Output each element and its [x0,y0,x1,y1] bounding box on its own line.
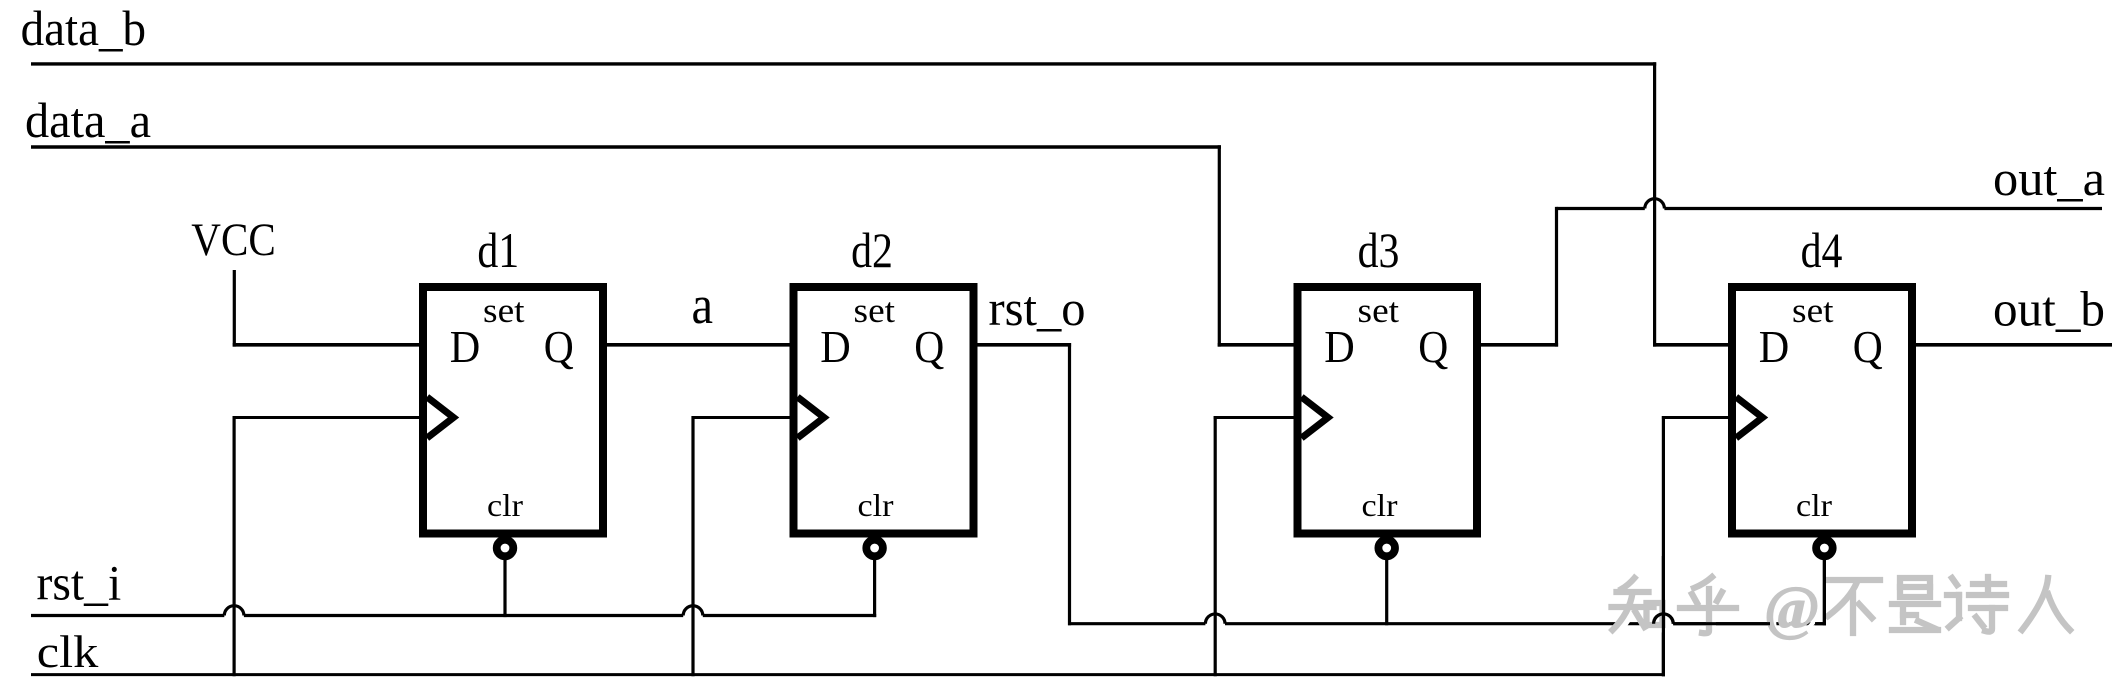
wire VCC to d1 D input [233,343,421,347]
wire d3 clr vertical [1385,556,1388,625]
wire d3 Q to out_a corner [1479,343,1558,347]
wire out_a horizontal (hop over data_b drop) [1557,207,1645,210]
wire rst_o vertical descent [1068,343,1071,625]
svg-text:clr: clr [1796,487,1832,523]
wire VCC vertical [233,270,236,347]
wire a : d1 Q to d2 D [605,343,792,347]
wire rst_o lower horizontal (hops over d3,d4 clock feeds) [1068,622,1205,625]
wire d1 clock feed vertical [233,416,236,676]
clock triangle d3 [1302,397,1329,438]
svg-text:d3: d3 [1358,222,1400,278]
clr bubble d2 [866,540,883,557]
flip-flop d4 [1732,287,1912,534]
svg-text:clr: clr [487,487,523,523]
wire rst_o segment right of hop (over watermark) [1673,622,1770,625]
wire d2 Q output [976,343,1072,347]
svg-text:Q: Q [544,321,574,372]
flip-flop d2 [794,287,974,534]
svg-text:out_b: out_b [1993,281,2105,337]
svg-text:Q: Q [914,321,944,372]
svg-text:clr: clr [1362,487,1398,523]
wire rst_i horizontal (hops over d1,d2 clock feeds) [31,614,224,617]
svg-text:D: D [1324,321,1355,372]
wire data_a to d3 D input [1218,343,1296,347]
wire data_b to d4 D input [1653,343,1730,347]
svg-text:D: D [450,321,481,372]
flip-flop d1 [423,287,603,534]
wire out_a vertical from d3 Q [1555,207,1558,347]
svg-text:data_b: data_b [21,0,146,56]
wire d1 clr vertical [503,556,506,617]
clock triangle d4 [1736,397,1763,438]
wire d3 clock input horizontal [1214,416,1303,419]
svg-text:rst_i: rst_i [37,555,122,611]
wire data_b vertical drop to d4 D [1653,62,1656,346]
svg-text:clr: clr [858,487,894,523]
svg-text:a: a [692,275,714,335]
svg-text:Q: Q [1853,321,1883,372]
watermark zhihu [1612,575,2074,645]
svg-text:out_a: out_a [1993,150,2105,206]
svg-text:VCC: VCC [191,214,275,266]
clr bubble d1 [497,540,514,557]
wire rst_o hop at d4 clock feed (over watermark) [1654,614,1674,624]
wire d1 clock input horizontal [233,416,428,419]
svg-text:clk: clk [37,626,99,677]
clock triangle d1 [427,397,454,438]
svg-text:d4: d4 [1801,222,1843,278]
wire data_b horizontal [31,62,1656,65]
wire clk bus horizontal [31,673,1665,676]
svg-text:set: set [1358,291,1400,330]
wire d3 clock feed vertical [1214,416,1217,676]
svg-text:rst_o: rst_o [989,280,1086,336]
wire d4 clock feed vertical (over watermark) [1662,556,1665,676]
wire d4 Q output to out_b [1914,343,2112,347]
svg-text:set: set [1792,291,1834,330]
clr bubble d3 [1378,540,1395,557]
wire rst_o end segment (over watermark) [1815,622,1826,625]
svg-text:d2: d2 [851,222,893,278]
svg-text:set: set [483,291,525,330]
wire d2 clock feed vertical [691,416,694,676]
wire d4 clr vertical [1823,556,1826,625]
wire d2 clock input horizontal [692,416,799,419]
svg-text:D: D [820,321,851,372]
wire data_a horizontal [31,145,1221,148]
svg-text:set: set [854,291,896,330]
svg-text:Q: Q [1418,321,1448,372]
clr bubble d4 [1816,540,1833,557]
wire d2 clr vertical [873,556,876,617]
wire data_a vertical drop to d3 D [1218,145,1221,346]
wire d4 clr vertical (over watermark) [1823,556,1826,625]
wire d4 clock input horizontal [1662,416,1737,419]
svg-text:data_a: data_a [25,92,151,148]
svg-text:@: @ [1764,575,1820,641]
flip-flop d3 [1298,287,1478,534]
wire d4 clock feed vertical [1662,416,1665,676]
clock triangle d2 [798,397,825,438]
svg-text:d1: d1 [477,222,519,278]
svg-text:D: D [1759,321,1790,372]
